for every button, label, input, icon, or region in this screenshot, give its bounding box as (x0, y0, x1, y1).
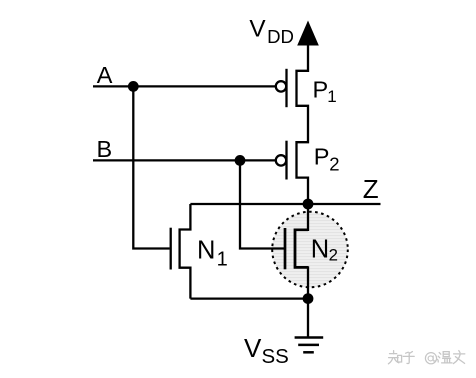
transistor N1 channel with drain/source wires (180, 204, 191, 299)
svg-text:1: 1 (327, 87, 336, 106)
node A junction dot (128, 81, 139, 92)
svg-text:P: P (313, 76, 329, 102)
transistor N1 gate bar (170, 228, 172, 270)
svg-text:A: A (97, 62, 113, 88)
power VDD arrow symbol (297, 21, 319, 46)
wire B horizontal (93, 159, 275, 161)
transistor N2 channel overdraw (bolder) (295, 230, 308, 268)
wire Z output horizontal (190, 203, 380, 205)
svg-text:2: 2 (329, 245, 338, 264)
wire VSS bottom rail (190, 297, 308, 299)
transistor P1 bubble (276, 81, 286, 91)
highlight circle around N2 (shaded, dotted outline) (272, 212, 348, 288)
node B junction dot (235, 155, 246, 166)
wire B vertical down to N2 gate (240, 160, 284, 248)
svg-text:V: V (249, 16, 266, 43)
svg-text:SS: SS (262, 345, 289, 368)
transistor P2 gate bar (285, 141, 287, 180)
svg-text:P: P (314, 143, 330, 169)
svg-text:V: V (244, 333, 262, 363)
ground symbol (295, 336, 324, 339)
node VSS junction dot (303, 293, 314, 304)
transistor N2 gate bar (284, 228, 287, 269)
svg-text:DD: DD (267, 26, 294, 47)
transistor P2 bubble (276, 155, 286, 165)
svg-text:N: N (197, 237, 215, 265)
svg-text:1: 1 (217, 248, 228, 270)
svg-text:N: N (311, 236, 329, 264)
wire main vertical rail: VDD through P1,P2 channels to Z and through N2 channel to VSS (295, 44, 308, 337)
svg-text:B: B (97, 136, 113, 162)
svg-text:2: 2 (329, 153, 339, 174)
watermark 知乎 @温文 (388, 351, 464, 364)
node Z junction dot (303, 199, 314, 210)
transistor P1 gate bar (285, 69, 287, 107)
svg-text:Z: Z (363, 174, 379, 204)
wire A horizontal (93, 85, 275, 87)
wire A vertical down to N1 gate (133, 86, 169, 248)
